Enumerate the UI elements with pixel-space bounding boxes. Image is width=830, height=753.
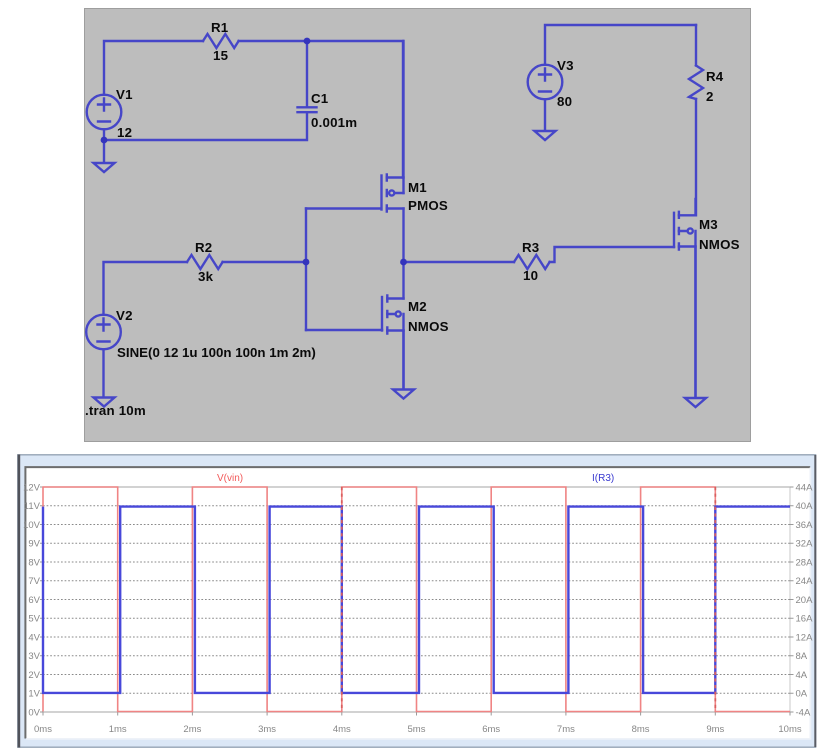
- wire gate bus: [305, 209, 307, 331]
- svg-text:9V: 9V: [28, 539, 40, 550]
- wire V1 bottom to ground: [103, 129, 105, 162]
- svg-text:9ms: 9ms: [706, 724, 724, 735]
- svg-text:V2: V2: [116, 308, 133, 323]
- svg-text:10: 10: [523, 268, 538, 283]
- svg-text:40A: 40A: [796, 501, 814, 512]
- overlap dashed vertical 4ms: [341, 487, 343, 712]
- svg-text:28A: 28A: [796, 558, 814, 569]
- wire M1 drain node to M2 drain: [402, 262, 404, 299]
- svg-text:36A: 36A: [796, 520, 814, 531]
- wire V3 top rail: [545, 25, 696, 65]
- svg-text:R1: R1: [211, 20, 229, 35]
- wire rail to R4: [695, 25, 697, 66]
- svg-text:NMOS: NMOS: [408, 319, 449, 334]
- svg-text:7V: 7V: [28, 576, 40, 587]
- transistor M2 NMOS: [382, 296, 404, 389]
- dotted gridlines 1V-11V: [43, 506, 790, 694]
- svg-text:4V: 4V: [28, 633, 40, 644]
- svg-text:C1: C1: [311, 91, 329, 106]
- resistor R3: [514, 255, 550, 269]
- wire C1 bottom to V1 bottom: [104, 113, 307, 140]
- svg-text:5ms: 5ms: [408, 724, 426, 735]
- wire R3 to M3 gate: [550, 247, 674, 262]
- svg-text:16A: 16A: [796, 614, 814, 625]
- svg-text:1ms: 1ms: [109, 724, 127, 735]
- svg-text:8ms: 8ms: [632, 724, 650, 735]
- axis ticks: [40, 487, 794, 716]
- wire V2 bottom to ground: [102, 349, 104, 396]
- svg-text:3V: 3V: [28, 651, 40, 662]
- plot panel outer: [18, 455, 816, 747]
- svg-text:0ms: 0ms: [34, 724, 52, 735]
- junction V1 bottom dot: [101, 137, 108, 144]
- svg-text:44A: 44A: [796, 483, 814, 494]
- overlap dashed vertical 9ms: [714, 487, 716, 712]
- svg-text:2ms: 2ms: [183, 724, 201, 735]
- x axis labels: [34, 724, 802, 735]
- svg-text:V3: V3: [557, 58, 574, 73]
- voltage source V1: [87, 95, 122, 130]
- schematic background: [85, 9, 751, 442]
- wire M2 source to ground: [402, 331, 404, 389]
- trace V(vin) red: [43, 487, 790, 712]
- wire R2 to node B: [223, 261, 306, 263]
- solid gridline 12V: [43, 486, 790, 488]
- svg-text:32A: 32A: [796, 539, 814, 550]
- trace I(R3) blue: [43, 507, 790, 693]
- wire R1 to node A: [239, 40, 307, 42]
- voltage source V2: [86, 315, 121, 350]
- svg-text:NMOS: NMOS: [699, 237, 740, 252]
- junction node B dot: [303, 259, 310, 266]
- plot panel left edge: [18, 455, 21, 748]
- resistor R4: [689, 66, 703, 100]
- resistor R1: [203, 34, 239, 48]
- svg-text:R4: R4: [706, 69, 724, 84]
- wire V1 top to R1: [104, 41, 203, 95]
- wire node A down to C1: [306, 41, 308, 106]
- junction node A dot: [304, 38, 311, 45]
- svg-text:4ms: 4ms: [333, 724, 351, 735]
- svg-text:M2: M2: [408, 299, 427, 314]
- wire M3 source to ground: [694, 247, 696, 398]
- svg-text:24A: 24A: [796, 576, 814, 587]
- svg-text:R3: R3: [522, 240, 539, 255]
- y axis labels right: [796, 483, 814, 719]
- svg-text:3ms: 3ms: [258, 724, 276, 735]
- wire bus to M1 gate: [306, 207, 381, 209]
- ground (V1): [94, 163, 115, 172]
- svg-text:10V: 10V: [23, 520, 41, 531]
- transistor M3 NMOS: [674, 199, 696, 397]
- svg-text:PMOS: PMOS: [408, 198, 448, 213]
- svg-text:7ms: 7ms: [557, 724, 575, 735]
- vertical gridlines each ms: [43, 487, 790, 712]
- plot inner frame: [26, 468, 810, 738]
- svg-text:0.001m: 0.001m: [311, 115, 357, 130]
- wire R4 to M3 drain: [695, 99, 697, 215]
- svg-text:-4A: -4A: [796, 708, 811, 719]
- svg-text:5V: 5V: [28, 614, 40, 625]
- ground (M3): [685, 398, 706, 407]
- svg-text:M1: M1: [408, 180, 427, 195]
- svg-text:V1: V1: [116, 87, 133, 102]
- wire output node to R3: [404, 261, 515, 263]
- svg-text:6ms: 6ms: [482, 724, 500, 735]
- wire V3 bottom to ground: [544, 99, 546, 130]
- svg-text:20A: 20A: [796, 595, 814, 606]
- ground (V3): [535, 131, 556, 140]
- svg-text:12: 12: [117, 125, 132, 140]
- junction output node dot: [400, 259, 407, 266]
- wire bus to M2 gate: [306, 329, 382, 331]
- voltage source V3: [528, 65, 563, 100]
- wire V2 top to R2: [104, 262, 188, 315]
- svg-text:11V: 11V: [24, 501, 41, 512]
- svg-text:3k: 3k: [198, 269, 214, 284]
- svg-text:80: 80: [557, 94, 572, 109]
- transistor M1 PMOS: [382, 41, 404, 262]
- svg-text:10ms: 10ms: [778, 724, 801, 735]
- svg-text:8A: 8A: [796, 651, 808, 662]
- solid gridline 0V: [43, 711, 790, 713]
- ground (M2): [393, 390, 414, 399]
- svg-text:6V: 6V: [28, 595, 40, 606]
- svg-text:0V: 0V: [28, 708, 40, 719]
- svg-text:15: 15: [213, 48, 229, 63]
- wire node A to M1 drain corner: [307, 41, 403, 178]
- plot panel right edge: [814, 455, 816, 747]
- svg-text:12A: 12A: [796, 633, 814, 644]
- svg-text:0A: 0A: [796, 689, 808, 700]
- svg-text:R2: R2: [195, 240, 212, 255]
- svg-text:I(R3): I(R3): [592, 473, 614, 484]
- svg-text:4A: 4A: [796, 670, 808, 681]
- svg-text:12V: 12V: [23, 483, 41, 494]
- svg-text:2V: 2V: [28, 670, 40, 681]
- capacitor C1: [298, 107, 317, 112]
- svg-text:8V: 8V: [28, 558, 40, 569]
- svg-text:SINE(0 12 1u 100n 100n 1m 2m): SINE(0 12 1u 100n 100n 1m 2m): [117, 345, 316, 360]
- svg-text:2: 2: [706, 89, 714, 104]
- svg-text:M3: M3: [699, 217, 718, 232]
- ground (V2): [94, 398, 115, 407]
- y axis labels left: [23, 483, 41, 719]
- svg-text:V(vin): V(vin): [217, 473, 243, 484]
- svg-text:1V: 1V: [28, 689, 40, 700]
- svg-text:.tran 10m: .tran 10m: [85, 403, 146, 418]
- resistor R2: [187, 255, 223, 269]
